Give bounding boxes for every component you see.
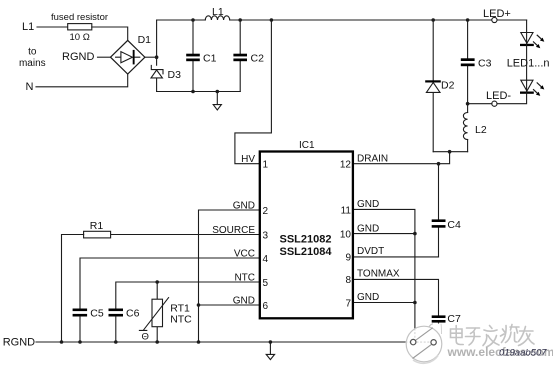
- svg-text:3: 3: [263, 230, 269, 241]
- wire L1 to fused resistor: [37, 26, 68, 28]
- node junction drain branch: [448, 150, 452, 154]
- svg-text:HV: HV: [241, 154, 255, 165]
- svg-text:10 Ω: 10 Ω: [70, 32, 90, 43]
- pin 4 VCC: [234, 248, 269, 265]
- svg-text:NTC: NTC: [170, 313, 192, 325]
- capacitor C5: [73, 308, 104, 342]
- watermark www.elecfans.com: [447, 345, 553, 359]
- node junction RT1 top: [155, 280, 159, 284]
- node LED- terminal: [486, 90, 511, 106]
- svg-text:5: 5: [263, 278, 269, 289]
- diode bridge D1: [111, 34, 152, 74]
- node junction LED- / L2: [466, 102, 470, 106]
- watermark figure id 019aab507: [499, 348, 547, 359]
- node junction C3 top: [466, 18, 470, 22]
- svg-text:mains: mains: [19, 58, 46, 69]
- svg-text:L2: L2: [475, 124, 487, 136]
- svg-text:C1: C1: [203, 52, 217, 64]
- wire RGND bottom rail: [36, 341, 420, 343]
- inductor L2: [463, 104, 486, 152]
- svg-text:L1: L1: [212, 6, 224, 18]
- svg-text:LED1...n: LED1...n: [507, 57, 550, 69]
- node RGND bottom label: [3, 337, 35, 349]
- ground input filter: [213, 92, 221, 111]
- wire RGND to bridge left: [98, 56, 111, 58]
- node LED1...n label: [507, 57, 550, 69]
- wire N to bridge bottom: [36, 74, 128, 87]
- svg-text:DVDT: DVDT: [357, 246, 384, 257]
- svg-text:D3: D3: [168, 69, 182, 81]
- pin 1 HV: [241, 154, 268, 171]
- node junction C4 top: [437, 162, 441, 166]
- wire bridge right to rectified node: [145, 56, 157, 58]
- wire LED2 to LED- line: [468, 92, 527, 104]
- capacitor C1: [186, 20, 216, 92]
- svg-text:7: 7: [345, 299, 351, 310]
- svg-text:8: 8: [345, 275, 351, 286]
- svg-text:SSL21084: SSL21084: [280, 246, 333, 258]
- wire GND pin7: [353, 302, 415, 304]
- op-amp U1 : IC1 SSL21082/SSL21084 body: [260, 140, 353, 318]
- svg-text:C2: C2: [251, 52, 265, 64]
- node junction C2 top: [238, 18, 242, 22]
- thermistor RT1 NTC: [139, 282, 192, 342]
- node junction C6 gnd: [114, 340, 118, 344]
- node junction ic gnd rail: [197, 340, 201, 344]
- wire TONMAX pin8 to C7: [353, 279, 439, 315]
- LED LED2: [520, 80, 544, 96]
- wire HV branch to pin 1: [235, 20, 272, 164]
- resistor R1: [62, 220, 260, 342]
- node junction R1 gnd: [60, 340, 64, 344]
- pin 7 GND: [345, 292, 379, 310]
- node to mains label: [19, 47, 46, 70]
- svg-text:GND: GND: [357, 292, 379, 303]
- svg-text:1: 1: [263, 160, 269, 171]
- svg-text:C6: C6: [126, 308, 140, 320]
- capacitor C4: [432, 164, 461, 257]
- svg-text:C4: C4: [447, 219, 461, 231]
- node junction ground stem: [216, 90, 220, 94]
- svg-text:RGND: RGND: [3, 337, 35, 349]
- wire bottom rail of input filter: [157, 91, 241, 93]
- node junction pin10 gnd: [413, 232, 417, 236]
- svg-text:C5: C5: [90, 308, 104, 320]
- node RGND input label: [62, 51, 94, 63]
- svg-text:TONMAX: TONMAX: [357, 269, 400, 280]
- svg-text:10: 10: [340, 230, 352, 241]
- svg-text:019aab507: 019aab507: [499, 348, 547, 359]
- wire GND pin6: [199, 304, 260, 306]
- svg-text:D1: D1: [138, 34, 152, 46]
- svg-text:Θ: Θ: [142, 331, 149, 342]
- pin 10 GND: [340, 223, 379, 240]
- wire GND pin10: [353, 233, 415, 235]
- pin 8 TONMAX: [345, 269, 399, 287]
- svg-text:9: 9: [345, 253, 351, 264]
- svg-text:D2: D2: [441, 80, 455, 92]
- node LED+ terminal: [483, 8, 511, 23]
- wire drain branch: [353, 152, 450, 164]
- pin 5 NTC: [234, 272, 268, 289]
- wire GND pin2/pin6 vertical: [199, 210, 260, 342]
- svg-text:11: 11: [341, 205, 352, 216]
- svg-text:LED-: LED-: [486, 90, 511, 102]
- node L1 mains terminal label: [22, 21, 34, 33]
- svg-text:4: 4: [263, 254, 269, 265]
- resistor fused resistor 10 ohm: [51, 12, 108, 43]
- svg-text:NTC: NTC: [234, 272, 255, 283]
- diode D3 zener: [151, 65, 181, 81]
- pin 2 GND: [233, 200, 269, 217]
- node junction C1 bottom: [191, 90, 195, 94]
- svg-text:GND: GND: [357, 223, 379, 234]
- svg-text:6: 6: [263, 301, 269, 312]
- svg-text:C3: C3: [478, 57, 492, 69]
- node junction D2 top: [431, 18, 435, 22]
- capacitor C7: [432, 313, 461, 338]
- wire LED1 to LED2: [526, 44, 528, 92]
- wire rectified vertical rail: [156, 20, 158, 92]
- wire VCC pin4 to C5: [80, 258, 259, 308]
- pin 3 SOURCE: [212, 225, 268, 242]
- svg-text:N: N: [26, 81, 34, 93]
- svg-text:2: 2: [263, 206, 269, 217]
- svg-text:SOURCE: SOURCE: [212, 225, 255, 236]
- svg-text:L1: L1: [22, 21, 34, 33]
- svg-text:to: to: [28, 47, 37, 58]
- svg-text:GND: GND: [357, 199, 379, 210]
- svg-text:GND: GND: [233, 200, 255, 211]
- wire GND pin11 to right gnd vertical: [353, 209, 415, 340]
- node rectified junction: [155, 55, 159, 59]
- ground RGND rail: [266, 342, 274, 360]
- inductor L1: [205, 6, 229, 20]
- node junction ground arrow: [269, 340, 273, 344]
- svg-text:VCC: VCC: [234, 248, 255, 259]
- svg-text:fused resistor: fused resistor: [51, 12, 108, 23]
- watermark elecfans logo circle: [406, 324, 442, 364]
- node junction RT1 gnd: [155, 340, 159, 344]
- svg-text:RGND: RGND: [62, 51, 94, 63]
- wire D2/L2 bottom rail: [433, 151, 467, 153]
- svg-text:IC1: IC1: [299, 140, 315, 151]
- wire top rail: [157, 19, 527, 21]
- diode D2: [425, 20, 454, 152]
- LED LED1: [520, 33, 544, 49]
- svg-text:GND: GND: [233, 295, 255, 306]
- svg-text:R1: R1: [90, 220, 104, 232]
- node junction C1 top: [191, 18, 195, 22]
- pin 12 DRAIN: [340, 154, 388, 171]
- pin 11 GND: [341, 199, 380, 216]
- node junction C5 gnd: [78, 340, 82, 344]
- wire DVDT pin9 to C4: [353, 256, 439, 258]
- pin 6 GND: [233, 295, 269, 312]
- svg-text:12: 12: [340, 160, 352, 171]
- watermark chinese characters dian zi fa shao you: [451, 325, 535, 348]
- pin 9 DVDT: [345, 246, 384, 264]
- node N terminal label: [26, 81, 34, 93]
- node junction pin6 gnd: [197, 303, 201, 307]
- wire LED+ down to LED1: [526, 20, 528, 44]
- svg-text:SSL21082: SSL21082: [280, 234, 332, 246]
- svg-text:C7: C7: [447, 313, 461, 325]
- capacitor C6: [109, 308, 140, 342]
- node junction pin7 gnd: [413, 301, 417, 305]
- capacitor C2: [233, 20, 264, 92]
- svg-text:DRAIN: DRAIN: [357, 154, 388, 165]
- node junction HV branch: [270, 18, 274, 22]
- wire NTC pin5 to C6: [116, 282, 259, 308]
- wire fused resistor to bridge top: [92, 27, 128, 40]
- capacitor C3: [461, 20, 492, 104]
